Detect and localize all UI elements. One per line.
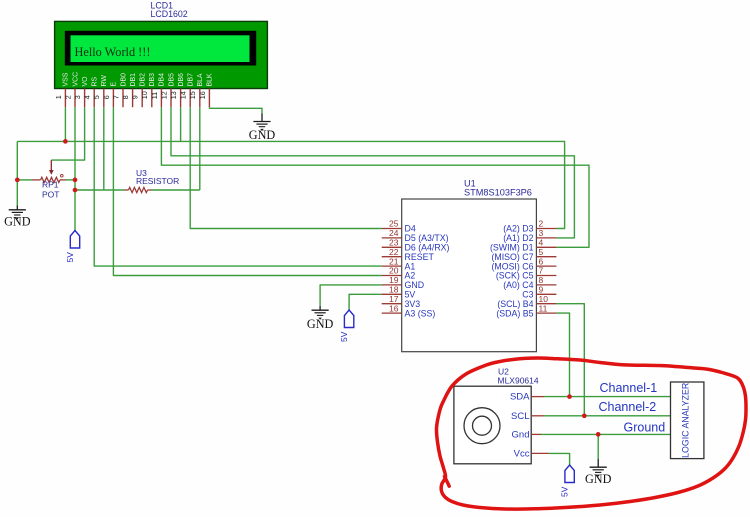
svg-text:5V: 5V (339, 331, 349, 342)
svg-text:DB3: DB3 (149, 73, 156, 87)
svg-text:12: 12 (159, 91, 168, 99)
svg-text:A3 (SS): A3 (SS) (405, 308, 436, 318)
svg-text:9: 9 (131, 95, 140, 99)
svg-text:BLK: BLK (207, 73, 214, 86)
svg-text:1: 1 (54, 95, 63, 99)
svg-text:DB2: DB2 (140, 73, 147, 87)
svg-text:GND: GND (307, 317, 334, 331)
svg-text:13: 13 (169, 91, 178, 99)
svg-text:16: 16 (389, 303, 399, 313)
svg-text:Hello World !!!: Hello World !!! (75, 45, 151, 59)
svg-text:Channel-1: Channel-1 (600, 381, 658, 395)
svg-text:DB6: DB6 (178, 73, 185, 87)
svg-text:GND: GND (585, 472, 612, 486)
svg-text:15: 15 (188, 91, 197, 99)
svg-text:3: 3 (73, 95, 82, 99)
svg-text:E: E (111, 82, 118, 87)
svg-text:SCL: SCL (511, 411, 529, 422)
svg-text:VCC: VCC (72, 72, 79, 87)
svg-text:DB4: DB4 (159, 73, 166, 87)
svg-text:GND: GND (4, 215, 31, 229)
svg-text:VSS: VSS (63, 72, 70, 86)
svg-text:DB7: DB7 (188, 73, 195, 87)
svg-text:GND: GND (249, 128, 276, 142)
svg-text:MLX90614: MLX90614 (498, 376, 539, 386)
svg-text:LCD1602: LCD1602 (151, 9, 188, 19)
svg-text:11: 11 (150, 92, 159, 99)
svg-text:DB5: DB5 (168, 73, 175, 87)
svg-text:Ground: Ground (624, 421, 666, 435)
svg-text:STM8S103F3P6: STM8S103F3P6 (464, 188, 532, 198)
svg-text:6: 6 (102, 95, 111, 99)
svg-text:Channel-2: Channel-2 (599, 400, 657, 414)
svg-text:LOGIC ANALYZER: LOGIC ANALYZER (681, 383, 691, 458)
svg-text:DB1: DB1 (130, 73, 137, 87)
svg-text:4: 4 (83, 95, 92, 99)
svg-text:5: 5 (92, 95, 101, 99)
svg-text:RESISTOR: RESISTOR (136, 176, 179, 186)
svg-text:RS: RS (92, 77, 99, 87)
svg-text:2: 2 (63, 95, 72, 99)
svg-text:Gnd: Gnd (512, 429, 530, 440)
svg-text:5V: 5V (65, 252, 75, 263)
svg-text:14: 14 (179, 91, 188, 99)
svg-text:5V: 5V (560, 486, 570, 497)
svg-text:(SDA) B5: (SDA) B5 (496, 308, 533, 318)
svg-text:BLA: BLA (197, 73, 204, 86)
svg-text:POT: POT (42, 190, 59, 200)
svg-text:DB0: DB0 (120, 73, 127, 87)
svg-text:8: 8 (121, 95, 130, 99)
svg-text:VO: VO (82, 76, 89, 87)
svg-text:10: 10 (140, 91, 149, 99)
svg-text:11: 11 (539, 303, 548, 313)
svg-text:16: 16 (198, 91, 207, 99)
svg-text:7: 7 (111, 95, 120, 99)
svg-text:Vcc: Vcc (514, 448, 530, 459)
svg-text:RP1: RP1 (42, 180, 59, 190)
svg-text:RW: RW (101, 75, 108, 87)
svg-text:SDA: SDA (510, 392, 530, 403)
